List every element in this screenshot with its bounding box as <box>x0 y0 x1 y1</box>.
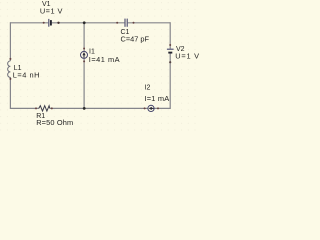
svg-text:I=1 mA: I=1 mA <box>145 94 170 103</box>
current source I2 <box>144 105 159 111</box>
svg-text:R=50 Ohm: R=50 Ohm <box>36 118 73 127</box>
wire left upper <box>9 22 11 61</box>
wire left lower <box>9 77 11 109</box>
svg-text:C=47 pF: C=47 pF <box>121 35 150 44</box>
inductor L1 <box>8 61 11 78</box>
wire right upper <box>169 22 171 49</box>
resistor R1 <box>35 106 53 111</box>
current source I1 <box>81 48 88 63</box>
wire top-right segment <box>128 22 170 24</box>
capacitor C1 <box>116 19 134 27</box>
pin dot L1 bottom <box>9 78 11 80</box>
wire top-middle segment <box>52 22 125 24</box>
junction node top (I1 branch) <box>83 21 86 24</box>
svg-text:I=41 mA: I=41 mA <box>89 55 120 64</box>
wire bottom-right segment <box>154 107 170 109</box>
voltage source V1 <box>43 19 60 27</box>
svg-text:I2: I2 <box>145 85 151 92</box>
svg-text:L=4 nH: L=4 nH <box>13 71 40 80</box>
wire I1 branch upper <box>83 23 85 51</box>
wire I1 branch lower <box>83 59 85 109</box>
junction node bottom (I1 branch) <box>83 107 86 110</box>
svg-text:U=1 V: U=1 V <box>40 6 63 15</box>
pin dot L1 top <box>9 58 11 60</box>
svg-text:U=1 V: U=1 V <box>175 51 200 60</box>
wire bottom-middle segment <box>50 107 148 109</box>
wire top-left segment <box>10 22 48 24</box>
voltage source V2 <box>167 44 174 63</box>
wire right lower <box>169 53 171 109</box>
wire bottom-left segment <box>10 107 39 109</box>
